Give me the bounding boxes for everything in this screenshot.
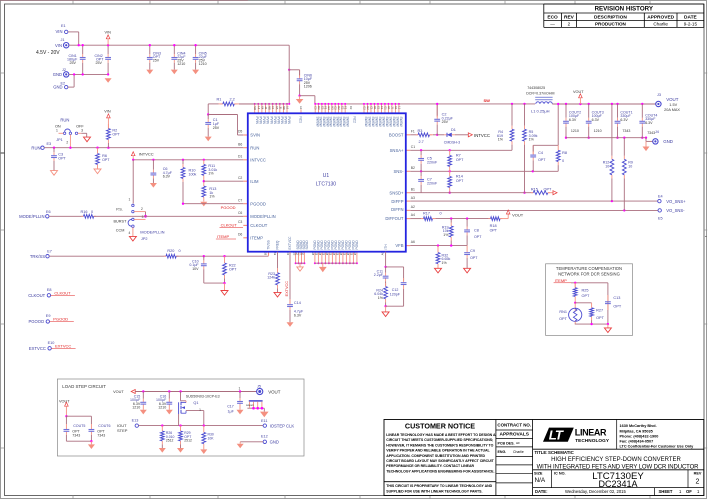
svg-text:2512: 2512 bbox=[166, 438, 174, 442]
svg-text:R16: R16 bbox=[81, 210, 88, 214]
svg-text:PVIN: PVIN bbox=[273, 117, 277, 125]
svg-text:6.3V: 6.3V bbox=[592, 118, 600, 122]
svg-text:VOUT: VOUT bbox=[268, 389, 281, 394]
svg-text:SUD50N03-10CP-E3: SUD50N03-10CP-E3 bbox=[186, 394, 220, 398]
svg-text:25V: 25V bbox=[153, 59, 160, 63]
svg-text:C2: C2 bbox=[238, 176, 242, 180]
svg-text:SNSD+: SNSD+ bbox=[389, 190, 404, 195]
svg-text:PVIN: PVIN bbox=[255, 117, 259, 125]
svg-text:OPT: OPT bbox=[559, 317, 567, 321]
svg-text:B2: B2 bbox=[411, 166, 415, 170]
svg-text:DIFFN: DIFFN bbox=[391, 207, 403, 212]
svg-text:1210: 1210 bbox=[132, 405, 140, 409]
svg-text:E12: E12 bbox=[261, 435, 268, 439]
svg-text:SW: SW bbox=[378, 122, 382, 127]
svg-text:25V: 25V bbox=[213, 126, 220, 130]
svg-text:B1: B1 bbox=[411, 187, 415, 191]
svg-text:LTC7130: LTC7130 bbox=[316, 182, 336, 188]
svg-text:10V: 10V bbox=[192, 267, 199, 271]
svg-text:4.5V - 20V: 4.5V - 20V bbox=[36, 50, 60, 56]
svg-text:PVIN: PVIN bbox=[266, 117, 270, 125]
svg-text:3: 3 bbox=[81, 129, 83, 133]
svg-text:PVIN: PVIN bbox=[287, 117, 291, 125]
svg-text:1μF: 1μF bbox=[228, 409, 235, 413]
svg-text:OPT: OPT bbox=[474, 235, 482, 239]
svg-text:Q1: Q1 bbox=[193, 401, 198, 405]
svg-text:COUT6: COUT6 bbox=[98, 424, 110, 428]
svg-text:25V: 25V bbox=[442, 120, 449, 124]
svg-text:2: 2 bbox=[66, 141, 68, 145]
svg-text:4: 4 bbox=[129, 231, 131, 235]
svg-text:RUN: RUN bbox=[60, 117, 69, 122]
svg-text:PVIN: PVIN bbox=[280, 117, 284, 125]
svg-text:SHEET: SHEET bbox=[659, 489, 673, 494]
svg-text:SUPPLIED FOR USE WITH LINEAR T: SUPPLIED FOR USE WITH LINEAR TECHNOLOGY … bbox=[386, 489, 482, 493]
svg-text:TITLE:: TITLE: bbox=[535, 450, 548, 455]
svg-text:E1: E1 bbox=[376, 106, 380, 110]
svg-text:1%: 1% bbox=[378, 296, 384, 300]
svg-text:APPROVED: APPROVED bbox=[647, 14, 674, 20]
svg-text:PCB DES.: PCB DES. bbox=[498, 441, 515, 445]
svg-text:JP1: JP1 bbox=[56, 138, 63, 142]
svg-text:E13: E13 bbox=[132, 419, 139, 423]
svg-text:J3: J3 bbox=[657, 93, 661, 97]
svg-text:744308025: 744308025 bbox=[527, 86, 545, 90]
svg-text:0: 0 bbox=[440, 212, 442, 216]
svg-text:OPT: OPT bbox=[538, 158, 546, 162]
svg-text:ITEMP: ITEMP bbox=[217, 234, 230, 239]
svg-text:M5: M5 bbox=[268, 106, 272, 110]
svg-text:E7: E7 bbox=[47, 250, 52, 254]
svg-text:OPT: OPT bbox=[596, 316, 604, 320]
svg-text:ITH: ITH bbox=[384, 244, 388, 250]
svg-text:SW: SW bbox=[484, 98, 491, 103]
svg-text:Milpitas, CA 95035: Milpitas, CA 95035 bbox=[620, 429, 653, 433]
svg-text:E11: E11 bbox=[261, 419, 267, 423]
svg-text:LT: LT bbox=[549, 428, 564, 443]
svg-text:NC2: NC2 bbox=[352, 117, 356, 124]
svg-text:25V: 25V bbox=[96, 61, 103, 65]
svg-text:6.3V: 6.3V bbox=[294, 313, 302, 317]
svg-text:CLKOUT: CLKOUT bbox=[54, 290, 71, 295]
svg-text:ITEMP: ITEMP bbox=[250, 235, 263, 240]
svg-text:COUT5: COUT5 bbox=[73, 424, 85, 428]
svg-text:K1: K1 bbox=[394, 106, 398, 110]
svg-text:C13: C13 bbox=[613, 296, 620, 300]
svg-text:1: 1 bbox=[199, 408, 201, 412]
svg-text:OPT: OPT bbox=[456, 158, 464, 162]
svg-text:OPT: OPT bbox=[613, 305, 621, 309]
svg-text:VIN: VIN bbox=[105, 31, 112, 35]
svg-text:PGND: PGND bbox=[355, 240, 359, 250]
svg-text:LINEAR TECHNOLOGY HAS MADE A B: LINEAR TECHNOLOGY HAS MADE A BEST EFFORT… bbox=[386, 433, 496, 437]
svg-text:E10: E10 bbox=[48, 341, 55, 345]
svg-text:2: 2 bbox=[568, 22, 571, 27]
svg-text:F1: F1 bbox=[411, 129, 415, 133]
svg-text:SW: SW bbox=[364, 122, 368, 127]
svg-text:1210: 1210 bbox=[199, 62, 207, 66]
svg-text:PVIN: PVIN bbox=[258, 117, 262, 125]
svg-text:CLKOUT: CLKOUT bbox=[221, 223, 238, 228]
svg-text:A2: A2 bbox=[411, 205, 415, 209]
svg-text:2512: 2512 bbox=[184, 438, 192, 442]
svg-text:SIZE: SIZE bbox=[534, 471, 543, 475]
svg-text:220nF: 220nF bbox=[427, 161, 438, 165]
svg-text:M6: M6 bbox=[282, 106, 286, 110]
svg-text:BOOST: BOOST bbox=[389, 133, 404, 138]
svg-text:DIFFP: DIFFP bbox=[391, 199, 403, 204]
svg-text:cwewn: cwewn bbox=[246, 404, 254, 407]
svg-text:1%: 1% bbox=[208, 172, 214, 176]
svg-text:PVIN: PVIN bbox=[284, 117, 288, 125]
svg-text:1210: 1210 bbox=[571, 129, 579, 133]
svg-text:SW: SW bbox=[399, 122, 403, 127]
svg-text:VIN: VIN bbox=[104, 109, 111, 113]
svg-text:Charlie: Charlie bbox=[513, 450, 524, 454]
svg-text:1%: 1% bbox=[209, 195, 215, 199]
svg-text:A1: A1 bbox=[299, 106, 303, 110]
svg-text:D1: D1 bbox=[373, 106, 377, 110]
svg-text:100k: 100k bbox=[189, 173, 197, 177]
svg-text:10: 10 bbox=[605, 164, 609, 168]
svg-text:PGOOD: PGOOD bbox=[29, 319, 45, 324]
svg-text:D5: D5 bbox=[238, 130, 242, 134]
svg-text:SVIN: SVIN bbox=[250, 133, 260, 138]
svg-text:E8: E8 bbox=[47, 288, 52, 292]
svg-text:9-2-15: 9-2-15 bbox=[684, 22, 698, 27]
svg-text:SW: SW bbox=[389, 122, 393, 127]
svg-text:E9: E9 bbox=[46, 314, 51, 318]
svg-text:IC NO.: IC NO. bbox=[554, 471, 566, 475]
svg-text:G1: G1 bbox=[383, 106, 387, 110]
svg-text:SW: SW bbox=[396, 122, 400, 127]
svg-text:PVIN: PVIN bbox=[262, 117, 266, 125]
svg-text:TRK/SS: TRK/SS bbox=[30, 254, 45, 259]
svg-text:B6: B6 bbox=[238, 142, 242, 146]
svg-text:R27: R27 bbox=[596, 308, 603, 312]
svg-text:SNSA+: SNSA+ bbox=[390, 148, 404, 153]
svg-text:R17: R17 bbox=[423, 212, 430, 216]
svg-text:ILIM: ILIM bbox=[250, 179, 259, 184]
svg-text:INTVCC: INTVCC bbox=[139, 151, 154, 156]
svg-text:A4: A4 bbox=[411, 213, 415, 217]
svg-text:EXTVCC: EXTVCC bbox=[29, 346, 46, 351]
svg-text:VOUT: VOUT bbox=[666, 97, 679, 102]
svg-text:R1: R1 bbox=[217, 98, 222, 102]
svg-text:J1: J1 bbox=[61, 38, 65, 42]
svg-text:GND: GND bbox=[270, 440, 279, 445]
svg-text:C1: C1 bbox=[369, 106, 373, 110]
svg-text:1: 1 bbox=[56, 129, 58, 133]
svg-text:10K: 10K bbox=[208, 437, 215, 441]
svg-text:SNS-: SNS- bbox=[393, 169, 404, 174]
svg-text:C1: C1 bbox=[411, 145, 415, 149]
svg-text:RUN: RUN bbox=[250, 145, 259, 150]
svg-text:R18: R18 bbox=[490, 224, 497, 228]
svg-text:U1: U1 bbox=[323, 173, 330, 179]
svg-text:C9: C9 bbox=[470, 249, 475, 253]
svg-text:1210: 1210 bbox=[594, 129, 602, 133]
svg-text:PGOOD: PGOOD bbox=[250, 201, 266, 206]
svg-text:CMDSH-3: CMDSH-3 bbox=[444, 141, 460, 145]
svg-text:E3: E3 bbox=[47, 142, 52, 146]
svg-text:—: — bbox=[550, 22, 555, 27]
svg-text:SCHEMATIC: SCHEMATIC bbox=[548, 450, 575, 455]
svg-text:C14: C14 bbox=[294, 301, 301, 305]
svg-text:VOUT: VOUT bbox=[59, 400, 70, 404]
svg-text:E5: E5 bbox=[658, 216, 663, 220]
svg-text:D2: D2 bbox=[349, 106, 353, 110]
svg-text:FREQ: FREQ bbox=[276, 240, 280, 249]
svg-text:MODE/PLLIN: MODE/PLLIN bbox=[140, 229, 164, 234]
svg-text:P.S.: P.S. bbox=[116, 207, 123, 211]
svg-text:VOUT: VOUT bbox=[573, 90, 584, 94]
svg-text:HIGH EFFICIENCY STEP-DOWN CONV: HIGH EFFICIENCY STEP-DOWN CONVERTER bbox=[551, 457, 681, 463]
svg-text:C6: C6 bbox=[238, 211, 242, 215]
svg-text:REVISION HISTORY: REVISION HISTORY bbox=[595, 6, 654, 13]
svg-text:6.3V: 6.3V bbox=[620, 118, 628, 122]
svg-text:VIN: VIN bbox=[56, 29, 63, 34]
svg-text:VERIFY PROPER AND RELIABLE OPE: VERIFY PROPER AND RELIABLE OPERATION IN … bbox=[386, 449, 490, 453]
svg-text:J5: J5 bbox=[257, 384, 261, 388]
svg-text:6.3V: 6.3V bbox=[645, 121, 653, 125]
svg-text:D1: D1 bbox=[451, 128, 456, 132]
svg-text:M4: M4 bbox=[253, 106, 257, 110]
svg-text:ITEMP: ITEMP bbox=[555, 278, 568, 283]
svg-text:1%: 1% bbox=[442, 261, 448, 265]
svg-text:RN1: RN1 bbox=[559, 310, 567, 314]
svg-text:124k: 124k bbox=[267, 276, 275, 280]
svg-text:PGOOD: PGOOD bbox=[221, 205, 236, 210]
svg-text:SW: SW bbox=[371, 122, 375, 127]
svg-text:THIS CIRCUIT IS PROPRIETARY TO: THIS CIRCUIT IS PROPRIETARY TO LINEAR TE… bbox=[386, 484, 492, 488]
svg-text:OPT: OPT bbox=[456, 179, 464, 183]
svg-text:2: 2 bbox=[696, 479, 700, 486]
svg-text:SW: SW bbox=[382, 122, 386, 127]
svg-text:0: 0 bbox=[179, 249, 181, 253]
svg-text:TK/SS: TK/SS bbox=[267, 240, 271, 249]
svg-text:OPT: OPT bbox=[582, 294, 590, 298]
svg-text:H1: H1 bbox=[387, 106, 391, 110]
svg-text:CLKOUT: CLKOUT bbox=[250, 223, 267, 228]
svg-text:JP2: JP2 bbox=[141, 237, 148, 241]
svg-text:E4: E4 bbox=[658, 195, 663, 199]
svg-text:TEMPERATURE COMPENSATION: TEMPERATURE COMPENSATION bbox=[556, 266, 622, 271]
svg-text:VO_SNS-: VO_SNS- bbox=[666, 208, 685, 213]
svg-text:SW: SW bbox=[385, 122, 389, 127]
svg-text:2.2μF: 2.2μF bbox=[374, 273, 384, 277]
svg-text:GND: GND bbox=[53, 72, 62, 77]
svg-text:SGND: SGND bbox=[305, 240, 309, 250]
svg-text:NETWORK FOR DCR SENSING: NETWORK FOR DCR SENSING bbox=[558, 272, 620, 277]
svg-text:OPT: OPT bbox=[112, 133, 120, 137]
svg-text:OPT: OPT bbox=[58, 156, 66, 160]
svg-text:SW: SW bbox=[375, 122, 379, 127]
svg-text:STEP: STEP bbox=[117, 428, 128, 433]
svg-text:LTC Confidential-For Customer: LTC Confidential-For Customer Use Only bbox=[620, 445, 695, 449]
svg-text:1.5V: 1.5V bbox=[669, 103, 677, 107]
svg-text:MODE/PLLIN: MODE/PLLIN bbox=[19, 214, 44, 219]
svg-text:R25: R25 bbox=[582, 288, 589, 292]
svg-text:R20: R20 bbox=[167, 249, 174, 253]
svg-text:NC1: NC1 bbox=[299, 117, 303, 124]
svg-text:7343: 7343 bbox=[97, 433, 105, 437]
svg-text:VOUT: VOUT bbox=[512, 212, 524, 217]
svg-text:EXTVCC: EXTVCC bbox=[55, 343, 71, 348]
svg-text:E1: E1 bbox=[61, 24, 66, 28]
svg-text:1%: 1% bbox=[529, 138, 535, 142]
svg-text:DATE: DATE bbox=[684, 14, 698, 20]
svg-text:1210: 1210 bbox=[177, 62, 185, 66]
svg-text:6.3V: 6.3V bbox=[569, 118, 577, 122]
svg-text:INTVCC: INTVCC bbox=[250, 157, 266, 162]
svg-text:Charlie: Charlie bbox=[653, 22, 668, 27]
svg-text:1630 McCarthy Blvd.: 1630 McCarthy Blvd. bbox=[620, 424, 657, 428]
svg-text:PVIN: PVIN bbox=[276, 117, 280, 125]
svg-text:VOUT: VOUT bbox=[113, 390, 124, 394]
svg-text:REV: REV bbox=[694, 471, 702, 475]
svg-text:K4: K4 bbox=[260, 106, 264, 110]
svg-text:1: 1 bbox=[239, 387, 241, 391]
svg-text:ECO: ECO bbox=[547, 14, 558, 20]
svg-text:ENG.: ENG. bbox=[498, 450, 507, 454]
svg-text:120pF: 120pF bbox=[390, 292, 401, 296]
svg-text:APPLICATION. COMPONENT SUBSTI: APPLICATION. COMPONENT SUBSTITUTION AND … bbox=[386, 454, 485, 458]
svg-text:CLKOUT: CLKOUT bbox=[28, 293, 45, 298]
svg-text:OPT: OPT bbox=[490, 229, 498, 233]
svg-text:APPROVALS: APPROVALS bbox=[500, 432, 530, 438]
svg-text:1%: 1% bbox=[498, 138, 504, 142]
svg-text:IOSTEP CLK: IOSTEP CLK bbox=[270, 424, 295, 429]
svg-text:N/A: N/A bbox=[535, 477, 546, 484]
svg-text:TECHNOLOGY: TECHNOLOGY bbox=[575, 438, 610, 443]
svg-text:H2: H2 bbox=[366, 106, 370, 110]
svg-text:SW: SW bbox=[368, 122, 372, 127]
svg-text:DCR=0.37mOHM: DCR=0.37mOHM bbox=[526, 92, 554, 96]
svg-text:DATE:: DATE: bbox=[535, 489, 547, 494]
svg-text:VIN: VIN bbox=[55, 43, 62, 48]
svg-text:CIRCUIT THAT MEETS CUSTOMER-SU: CIRCUIT THAT MEETS CUSTOMER-SUPPLIED SPE… bbox=[386, 438, 493, 442]
svg-text:BURST: BURST bbox=[114, 220, 128, 224]
svg-text:G2: G2 bbox=[363, 106, 367, 110]
svg-text:CONTRACT NO.: CONTRACT NO. bbox=[497, 422, 531, 427]
svg-text:GND: GND bbox=[53, 85, 62, 90]
svg-text:RUN: RUN bbox=[31, 145, 40, 150]
svg-text:GND: GND bbox=[663, 139, 673, 144]
svg-text:0: 0 bbox=[91, 210, 93, 214]
svg-text:J4: J4 bbox=[655, 130, 659, 134]
svg-text:E6: E6 bbox=[46, 210, 51, 214]
svg-text:1: 1 bbox=[129, 198, 131, 202]
svg-text:2: 2 bbox=[141, 207, 143, 211]
svg-text:Fax: (408)434-0507: Fax: (408)434-0507 bbox=[620, 440, 654, 444]
svg-text:PVIN: PVIN bbox=[269, 117, 273, 125]
svg-text:C8: C8 bbox=[474, 228, 479, 232]
svg-text:A3: A3 bbox=[411, 196, 415, 200]
svg-text:TECHNOLOGY APPLICATIONS ENGINE: TECHNOLOGY APPLICATIONS ENGINEERING FOR … bbox=[386, 469, 494, 473]
svg-text:LINEAR: LINEAR bbox=[575, 428, 607, 438]
svg-text:CUSTOMER NOTICE: CUSTOMER NOTICE bbox=[405, 422, 475, 431]
svg-text:EXTVCC: EXTVCC bbox=[288, 236, 292, 250]
svg-text:Wednesday, December 02, 2015: Wednesday, December 02, 2015 bbox=[565, 489, 627, 494]
svg-text:25V: 25V bbox=[70, 61, 77, 65]
svg-text:L1 0.25μH: L1 0.25μH bbox=[531, 108, 550, 113]
svg-text:OPT: OPT bbox=[470, 256, 478, 260]
svg-text:6.3V: 6.3V bbox=[163, 175, 171, 179]
svg-text:DIFFOUT: DIFFOUT bbox=[385, 216, 404, 221]
svg-text:HOWEVER, IT REMAINS THE CUSTOM: HOWEVER, IT REMAINS THE CUSTOMER'S RESPO… bbox=[386, 443, 493, 447]
svg-text:D1: D1 bbox=[238, 154, 242, 158]
svg-text:R8: R8 bbox=[562, 151, 567, 155]
svg-text:7343: 7343 bbox=[622, 129, 630, 133]
svg-text:EXTVCC: EXTVCC bbox=[285, 281, 289, 297]
svg-text:C7: C7 bbox=[238, 198, 242, 202]
svg-text:REV: REV bbox=[564, 14, 575, 20]
svg-text:PERFORMANCE OR RELIABILITY. C: PERFORMANCE OR RELIABILITY. CONTACT LINE… bbox=[386, 464, 474, 468]
svg-text:PRODUCTION: PRODUCTION bbox=[595, 22, 627, 27]
svg-text:C3: C3 bbox=[238, 220, 242, 224]
svg-text:1206: 1206 bbox=[304, 84, 312, 88]
svg-text:1%: 1% bbox=[443, 233, 449, 237]
svg-text:J2: J2 bbox=[62, 68, 66, 72]
svg-text:CCM: CCM bbox=[116, 229, 125, 233]
svg-text:LOAD STEP CIRCUIT: LOAD STEP CIRCUIT bbox=[62, 384, 106, 389]
svg-text:20A MAX: 20A MAX bbox=[664, 108, 680, 112]
svg-text:7343: 7343 bbox=[72, 433, 80, 437]
svg-text:VO_SNS+: VO_SNS+ bbox=[666, 199, 686, 204]
svg-text:3: 3 bbox=[142, 215, 144, 219]
svg-text:2.7: 2.7 bbox=[419, 140, 424, 144]
svg-text:INTVCC: INTVCC bbox=[474, 133, 490, 138]
svg-text:MODE/PLLIN: MODE/PLLIN bbox=[250, 214, 275, 219]
svg-text:C4: C4 bbox=[538, 151, 543, 155]
svg-text:220nF: 220nF bbox=[427, 182, 438, 186]
svg-text:0: 0 bbox=[562, 159, 564, 163]
svg-text:VFB: VFB bbox=[395, 243, 403, 248]
svg-text:K5: K5 bbox=[275, 106, 279, 110]
svg-text:OPT: OPT bbox=[229, 267, 237, 271]
svg-text:CIRCUIT BOARD LAYOUT MAY SIGNI: CIRCUIT BOARD LAYOUT MAY SIGNIFICANTLY A… bbox=[386, 459, 494, 463]
svg-text:D6: D6 bbox=[238, 232, 242, 236]
svg-text:SW: SW bbox=[392, 122, 396, 127]
svg-text:SW: SW bbox=[345, 122, 349, 127]
svg-text:10: 10 bbox=[628, 164, 632, 168]
svg-text:PGOOD: PGOOD bbox=[53, 317, 68, 322]
svg-text:OPT: OPT bbox=[102, 158, 110, 162]
svg-text:HF: HF bbox=[516, 441, 520, 445]
svg-text:DESCRIPTION: DESCRIPTION bbox=[594, 14, 627, 20]
svg-text:Phone: (408)432-1900: Phone: (408)432-1900 bbox=[620, 434, 659, 438]
svg-text:A6: A6 bbox=[411, 240, 415, 244]
svg-text:OF: OF bbox=[686, 489, 692, 494]
svg-text:C17: C17 bbox=[227, 404, 234, 408]
svg-text:1210: 1210 bbox=[158, 405, 166, 409]
